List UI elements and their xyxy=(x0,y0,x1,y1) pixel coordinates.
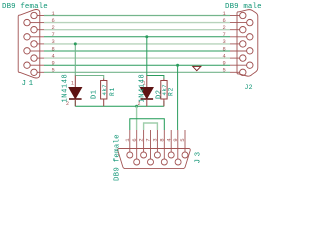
svg-text:DB9 female: DB9 female xyxy=(2,3,48,11)
svg-text:1: 1 xyxy=(223,11,226,17)
svg-text:D1: D1 xyxy=(91,89,99,99)
svg-text:5: 5 xyxy=(179,138,186,142)
wire net pin7 (J1.7 to J2.7) xyxy=(44,36,230,38)
svg-text:J2: J2 xyxy=(245,84,253,91)
junction on net pin3 at drop A xyxy=(74,42,77,45)
wire drop C: cathode bus down to J3 pin 6 xyxy=(136,106,138,130)
junction on net pin9 at drop D xyxy=(176,64,179,67)
wire R2 bottom corner xyxy=(163,101,165,106)
svg-text:5: 5 xyxy=(223,68,226,74)
connector J1 DB9 female shell xyxy=(18,10,40,79)
J1 pin numbers xyxy=(52,11,55,74)
J1 pin circles right column (1,2,3,4,5) xyxy=(31,12,37,75)
junction on cathode bus at drop C xyxy=(135,105,138,108)
wire net pin4 (J1.4 to J2.4) xyxy=(44,57,230,59)
J3 pin stubs xyxy=(130,130,185,159)
svg-text:3: 3 xyxy=(223,39,226,45)
J3 pin circles top row (1,2,3,4,5) xyxy=(127,152,188,158)
svg-text:DB9 female: DB9 female xyxy=(114,134,122,181)
svg-text:3: 3 xyxy=(52,39,55,45)
svg-text:R1: R1 xyxy=(109,87,116,96)
J1 pin circles left column (6,7,8,9) xyxy=(24,19,30,68)
resistor R2 xyxy=(161,79,167,107)
svg-text:4k7: 4k7 xyxy=(101,84,108,96)
svg-text:DB9 male: DB9 male xyxy=(225,3,262,11)
J3 pin circles bottom row (6,7,8,9) xyxy=(134,159,181,165)
diode D2 xyxy=(138,76,154,107)
wire net pin6 (J1.6 to J2.6) xyxy=(44,22,230,24)
wire net pin8 (J1.8 to J2.8) xyxy=(44,50,230,52)
svg-text:7: 7 xyxy=(223,32,226,38)
svg-text:6: 6 xyxy=(223,18,226,24)
svg-text:5: 5 xyxy=(52,68,55,74)
svg-text:7: 7 xyxy=(52,32,55,38)
svg-text:8: 8 xyxy=(223,46,226,52)
wire net pin1 (J1.1 to J2.1) xyxy=(44,15,230,17)
svg-text:R2: R2 xyxy=(168,87,175,96)
J2 pin circles right column (6,7,8,9) xyxy=(247,19,253,68)
connector J2 DB9 male shell (mirror of J1) xyxy=(237,10,258,77)
wire D1 bottom corner xyxy=(74,101,76,107)
J2 pin circles left column (1,2,3,4,5) xyxy=(240,12,246,75)
wire net pin2 (J1.2 to J2.2) xyxy=(44,29,230,31)
connector J3 DB9 female shell xyxy=(118,149,191,169)
svg-text:J3: J3 xyxy=(195,149,203,163)
svg-text:4: 4 xyxy=(223,53,226,59)
svg-text:9: 9 xyxy=(52,61,55,67)
svg-text:1N4148: 1N4148 xyxy=(61,74,69,103)
wire net pin9 (J1.9 to J2.9) xyxy=(44,64,230,66)
svg-text:J1: J1 xyxy=(22,80,36,88)
svg-text:1: 1 xyxy=(71,81,74,87)
svg-text:4: 4 xyxy=(52,53,55,59)
svg-text:1N4148: 1N4148 xyxy=(138,74,146,103)
J2 pin numbers xyxy=(223,11,226,74)
svg-text:2: 2 xyxy=(52,25,55,31)
svg-text:6: 6 xyxy=(52,18,55,24)
junction on net pin7 at drop B xyxy=(145,35,148,38)
svg-text:1: 1 xyxy=(52,11,55,17)
wire net pin5 (J1.5 to J2.5) xyxy=(44,71,230,73)
svg-text:2: 2 xyxy=(223,25,226,31)
wire J3 inner bracket (pins 2-3) xyxy=(144,123,158,130)
wire drop A: net pin3 down to D1/R1 top xyxy=(75,44,103,79)
wire J3 outer bracket (pins 1-8) xyxy=(130,119,165,130)
svg-text:9: 9 xyxy=(223,61,226,67)
diode D1 xyxy=(66,76,82,107)
J1 pin stubs xyxy=(30,16,44,73)
J3 pin numbers (rotated) xyxy=(124,138,186,142)
resistor R1 xyxy=(101,79,107,107)
svg-text:8: 8 xyxy=(52,46,55,52)
wire net pin3 (J1.3 to J2.3) xyxy=(44,43,230,45)
wire drop D: net pin9 down to J3 pin 9 xyxy=(177,65,179,130)
wire drop B: net pin7 down to D2/R2 top xyxy=(147,37,164,79)
wire cathode bus (D1,R1,D2,R2 bottoms) xyxy=(75,105,164,107)
J2 pin stubs xyxy=(230,16,246,73)
open triangle marker on net pin9 xyxy=(193,66,201,70)
